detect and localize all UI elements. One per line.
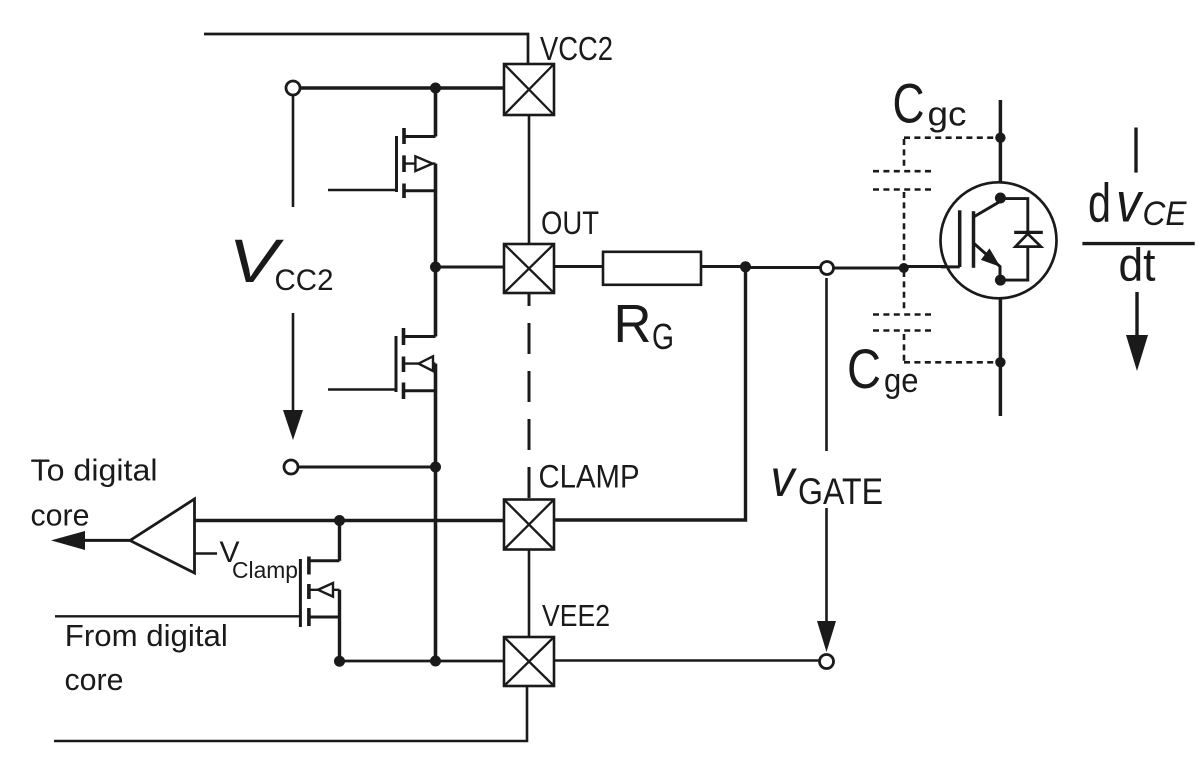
svg-text:VCC2: VCC2	[540, 30, 613, 67]
terminal supply bottom (open circle)	[284, 460, 298, 474]
svg-text:To digital: To digital	[31, 454, 158, 488]
IGBT Q1	[941, 100, 1057, 416]
wire OUT node to M2 drain	[434, 267, 438, 337]
M1 body arrow (points right)	[415, 156, 432, 171]
M2 channel segments	[402, 328, 406, 399]
wire supply top rail	[300, 86, 504, 90]
svg-text:core: core	[65, 663, 124, 697]
wire VEE2 pad to vGATE terminal	[554, 659, 820, 662]
M2 gate bar	[395, 336, 398, 392]
Q1 gate lead inside	[941, 265, 960, 268]
junction dot collector tap	[995, 133, 1005, 143]
svg-text:v: v	[1116, 171, 1144, 234]
label dvCE/dt with arrow	[1082, 128, 1194, 372]
M1 gate lead	[328, 189, 397, 192]
wire top feed to VCC2 pad	[204, 34, 528, 64]
svg-text:d: d	[1088, 172, 1111, 234]
M1 channel segments	[402, 128, 406, 198]
M3 drain wire up to clamp node	[338, 521, 341, 561]
arrowhead to digital core	[51, 531, 85, 550]
Q1 collector wire	[999, 100, 1003, 182]
svg-text:GATE: GATE	[798, 470, 883, 512]
wire OUT pad to resistor	[554, 265, 603, 268]
wire vgate terminal to Cge tap	[834, 267, 904, 270]
wire VEE rail to pad	[340, 660, 505, 663]
M3 source wire down to VEE rail	[338, 590, 341, 661]
M1 drain lead	[404, 135, 436, 138]
svg-text:OUT: OUT	[541, 205, 599, 241]
svg-text:ge: ge	[884, 362, 919, 400]
M3 drain lead	[309, 559, 340, 562]
pad OUT	[504, 244, 554, 293]
M1 source lead	[404, 189, 436, 192]
svg-text:core: core	[31, 499, 90, 533]
Q1 gate bar	[958, 210, 962, 267]
junction dot M3 at VEE rail	[334, 656, 345, 667]
svg-text:v: v	[771, 450, 798, 508]
arrow VCC2 down	[292, 313, 295, 424]
svg-text:Clamp: Clamp	[232, 557, 298, 583]
transistor M2 NMOS	[328, 328, 436, 399]
arrow vGATE down	[825, 508, 828, 625]
wire Cge tap to IGBT gate	[904, 265, 960, 268]
Q1 body circle	[941, 182, 1057, 298]
M2 drain lead	[404, 335, 436, 338]
dvdt arrow down	[1135, 292, 1138, 336]
wire clamp feedback (gate node to CLAMP pad)	[554, 267, 746, 520]
wire gate node to vgate terminal	[746, 266, 821, 269]
svg-text:G: G	[652, 316, 674, 357]
wire comparator output	[84, 539, 130, 542]
wire VCC2 measure upper	[292, 96, 295, 207]
svg-text:CLAMP: CLAMP	[539, 459, 640, 495]
resistor RG	[603, 252, 701, 285]
junction dot Cge tap	[899, 263, 909, 273]
M3 gate lead (from digital core)	[55, 615, 300, 617]
terminal vGATE bottom (open circle)	[820, 655, 834, 669]
capacitor Cgc (dotted)	[873, 138, 997, 265]
svg-text:CC2: CC2	[275, 264, 334, 297]
svg-text:R: R	[614, 294, 652, 354]
M3 gate bar	[299, 559, 302, 627]
svg-text:From digital: From digital	[65, 619, 228, 653]
transistor M3 clamp NMOS	[55, 521, 340, 662]
wire comparator input / clamp node rail	[195, 519, 505, 522]
comparator A1	[130, 499, 195, 573]
pad VCC2	[504, 64, 554, 115]
svg-text:VEE2: VEE2	[542, 598, 610, 633]
svg-text:gc: gc	[928, 96, 967, 134]
M3 body arrow (points left)	[318, 583, 333, 597]
wire dashed OUT to CLAMP	[528, 293, 531, 499]
Q1 collector diagonal	[974, 198, 1001, 217]
wire OUT node to OUT pad	[436, 266, 505, 269]
svg-text:dt: dt	[1119, 239, 1156, 291]
M3 body lead	[309, 589, 340, 591]
M2 source lead	[404, 389, 436, 392]
junction dot VEE rail	[430, 656, 441, 667]
dvdt top tick	[1134, 128, 1137, 173]
M3 source lead	[309, 616, 340, 619]
M1 body lead	[404, 162, 436, 164]
wire VEE2 bottom return	[54, 686, 527, 741]
wire vGATE measure upper	[825, 278, 828, 451]
wire supply bottom rail	[298, 466, 436, 469]
svg-text:C: C	[893, 72, 925, 135]
wire M2 source down to VEE rail	[434, 364, 438, 661]
terminal vGATE (open circle)	[821, 262, 834, 275]
pad VEE2	[504, 637, 554, 686]
M3 channel segments	[307, 557, 311, 627]
wire VCC2 pad to OUT pad	[528, 115, 531, 244]
junction dot clamp gate node	[334, 515, 345, 526]
wire resistor to gate node	[701, 265, 746, 268]
Q1 channel bar	[972, 211, 976, 268]
M2 body lead	[404, 362, 436, 364]
wire M1 source to OUT node	[434, 164, 438, 267]
M2 gate lead	[328, 388, 396, 391]
diode D1 bar	[1014, 231, 1043, 234]
M1 gate bar	[395, 136, 398, 192]
svg-text:C: C	[847, 337, 881, 400]
junction dot Q1 collector	[995, 193, 1006, 204]
lead Vclamp reference	[195, 552, 218, 554]
Q1 emitter wire	[999, 298, 1003, 416]
junction dot top rail	[430, 83, 441, 94]
capacitor Cge (dotted)	[873, 271, 997, 362]
dvdt fraction bar	[1082, 242, 1194, 245]
junction dot gate/clamp node	[740, 261, 751, 272]
junction dot mid rail	[430, 462, 441, 473]
M2 body arrow (points left)	[419, 356, 434, 371]
wire M1 drain up	[434, 88, 438, 137]
svg-text:CE: CE	[1143, 195, 1187, 233]
pad CLAMP	[504, 500, 554, 550]
junction dot Q1 emitter	[995, 275, 1006, 286]
junction dot emitter tap	[995, 357, 1005, 367]
wire CLAMP pad to VEE2 pad	[528, 550, 531, 638]
terminal supply top (open circle)	[286, 81, 300, 95]
junction dot OUT node	[430, 262, 441, 273]
Q1 emitter diagonal with arrow	[974, 243, 1001, 280]
diode D1 triangle	[1015, 234, 1041, 247]
diode D1 branch	[1000, 199, 1027, 281]
transistor M1 PMOS	[328, 128, 436, 198]
